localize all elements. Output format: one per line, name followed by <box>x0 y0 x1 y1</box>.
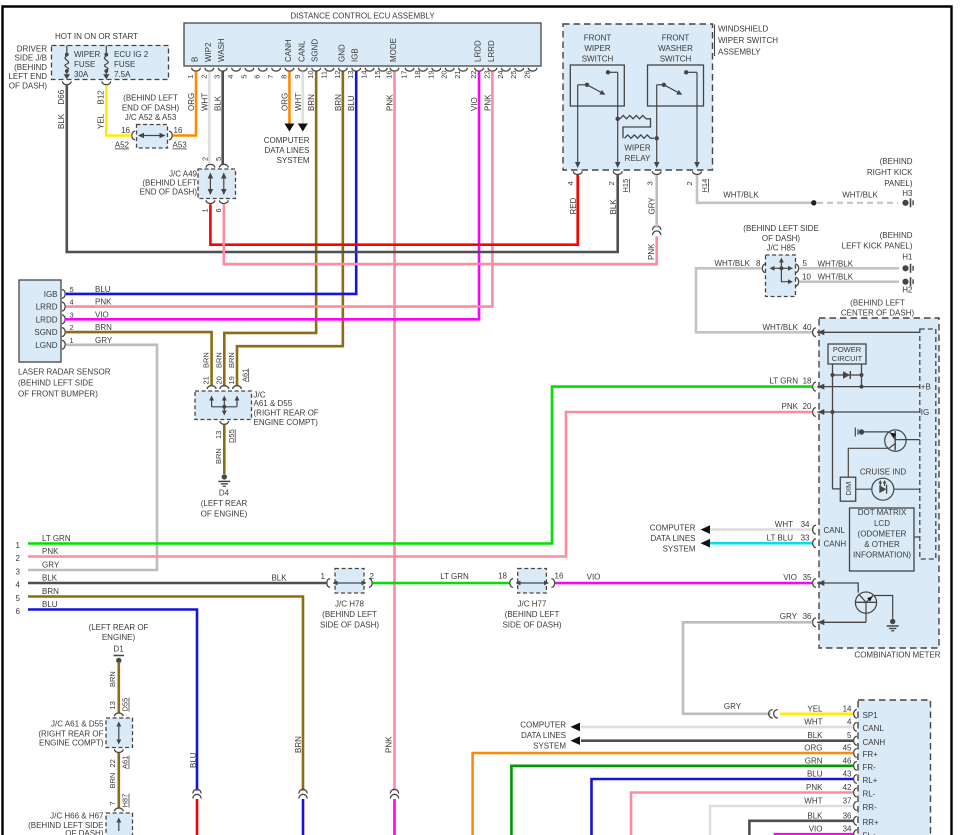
svg-text:PNK: PNK <box>386 94 395 111</box>
svg-text:WASHER: WASHER <box>658 44 693 53</box>
svg-text:SWITCH: SWITCH <box>660 55 692 64</box>
svg-text:J/C H78: J/C H78 <box>335 600 364 609</box>
svg-text:LCD: LCD <box>874 519 890 528</box>
svg-text:26: 26 <box>523 70 532 78</box>
svg-text:PNK: PNK <box>782 402 799 411</box>
svg-text:YEL: YEL <box>97 113 106 129</box>
svg-text:ENGINE): ENGINE) <box>102 633 136 642</box>
svg-text:19: 19 <box>426 70 435 78</box>
svg-text:16: 16 <box>555 572 564 581</box>
svg-text:PANEL): PANEL) <box>884 179 913 188</box>
svg-text:(BEHIND: (BEHIND <box>14 63 47 72</box>
svg-text:35: 35 <box>803 573 812 582</box>
svg-text:A52: A52 <box>115 141 130 150</box>
svg-text:BLK: BLK <box>214 95 223 111</box>
svg-text:IGB: IGB <box>44 290 58 299</box>
svg-text:GRY: GRY <box>648 197 657 215</box>
svg-text:FUSE: FUSE <box>114 60 135 69</box>
svg-text:2: 2 <box>199 75 208 79</box>
svg-text:BRN: BRN <box>307 94 316 111</box>
svg-text:(BEHIND LEFT: (BEHIND LEFT <box>322 610 377 619</box>
svg-text:18: 18 <box>498 572 507 581</box>
svg-text:GRY: GRY <box>724 702 742 711</box>
svg-text:VIO: VIO <box>470 97 479 111</box>
svg-text:LT GRN: LT GRN <box>440 572 469 581</box>
svg-text:30A: 30A <box>74 70 89 79</box>
svg-text:45: 45 <box>843 744 852 753</box>
svg-text:MODE: MODE <box>389 38 398 62</box>
svg-text:WHT/BLK: WHT/BLK <box>762 323 798 332</box>
svg-text:BRN: BRN <box>42 587 59 596</box>
svg-text:5: 5 <box>70 285 74 294</box>
svg-text:COMBINATION METER: COMBINATION METER <box>854 651 940 660</box>
svg-text:25: 25 <box>509 70 518 78</box>
svg-text:J/C H85: J/C H85 <box>767 244 796 253</box>
svg-text:H3: H3 <box>902 189 913 198</box>
svg-text:FRONT: FRONT <box>584 34 612 43</box>
svg-text:4: 4 <box>226 75 235 79</box>
svg-text:A61: A61 <box>240 369 249 382</box>
svg-text:6: 6 <box>253 75 262 79</box>
svg-text:WIPER: WIPER <box>584 44 610 53</box>
svg-text:2: 2 <box>607 181 616 185</box>
svg-text:BLU: BLU <box>95 285 111 294</box>
svg-text:5: 5 <box>239 75 248 79</box>
svg-text:(ODOMETER: (ODOMETER <box>858 530 907 539</box>
svg-text:CANH: CANH <box>284 39 293 62</box>
svg-text:FUSE: FUSE <box>74 60 95 69</box>
svg-text:& OTHER: & OTHER <box>864 540 900 549</box>
svg-text:ORG: ORG <box>280 93 289 111</box>
svg-text:ENGINE COMPT): ENGINE COMPT) <box>254 418 319 427</box>
svg-text:3: 3 <box>16 568 21 577</box>
svg-text:4: 4 <box>566 181 575 185</box>
svg-text:J/C A52 & A53: J/C A52 & A53 <box>125 113 177 122</box>
svg-text:INFORMATION): INFORMATION) <box>853 551 911 560</box>
svg-text:LEFT END: LEFT END <box>8 72 47 81</box>
svg-text:DATA LINES: DATA LINES <box>521 731 566 740</box>
svg-text:END OF DASH): END OF DASH) <box>122 104 180 113</box>
svg-text:GRY: GRY <box>95 336 113 345</box>
svg-text:18: 18 <box>803 377 812 386</box>
svg-text:(BEHIND LEFT: (BEHIND LEFT <box>142 179 197 188</box>
svg-text:WIPER: WIPER <box>74 50 100 59</box>
svg-text:VIO: VIO <box>95 310 109 319</box>
svg-text:LGND: LGND <box>35 341 57 350</box>
svg-text:+B: +B <box>921 383 931 392</box>
svg-text:WINDSHIELD: WINDSHIELD <box>718 25 768 34</box>
svg-text:SP1: SP1 <box>863 711 879 720</box>
svg-text:(RIGHT REAR OF: (RIGHT REAR OF <box>254 409 319 418</box>
svg-text:BRN: BRN <box>95 323 112 332</box>
svg-text:3: 3 <box>70 310 74 319</box>
svg-text:ORG: ORG <box>187 93 196 111</box>
svg-text:6: 6 <box>214 208 223 212</box>
svg-text:GRY: GRY <box>780 612 798 621</box>
svg-text:PNK: PNK <box>385 736 394 753</box>
svg-text:20: 20 <box>440 70 449 78</box>
svg-text:FL+: FL+ <box>863 831 877 835</box>
svg-text:BLK: BLK <box>807 731 823 740</box>
svg-text:8: 8 <box>756 259 761 268</box>
svg-text:2: 2 <box>16 554 21 563</box>
svg-text:ORG: ORG <box>804 744 822 753</box>
svg-text:A53: A53 <box>173 141 188 150</box>
svg-text:CANL: CANL <box>863 724 885 733</box>
svg-text:OF ENGINE): OF ENGINE) <box>201 510 248 519</box>
svg-text:YEL: YEL <box>807 704 823 713</box>
svg-text:FRONT: FRONT <box>662 34 690 43</box>
svg-text:D1: D1 <box>113 645 124 654</box>
svg-text:RL+: RL+ <box>863 776 878 785</box>
svg-text:LT BLU: LT BLU <box>767 534 794 543</box>
svg-text:5: 5 <box>803 259 808 268</box>
svg-text:PNK: PNK <box>647 243 656 260</box>
svg-text:OF DASH): OF DASH) <box>65 829 104 835</box>
svg-text:PNK: PNK <box>95 298 112 307</box>
svg-text:22: 22 <box>469 70 478 78</box>
svg-text:H87: H87 <box>121 794 130 808</box>
svg-text:SGND: SGND <box>34 328 57 337</box>
svg-text:20: 20 <box>214 376 223 384</box>
svg-text:RR+: RR+ <box>863 818 880 827</box>
svg-text:4: 4 <box>70 298 74 307</box>
svg-text:3: 3 <box>646 181 655 185</box>
svg-text:21: 21 <box>453 70 462 78</box>
svg-text:WIP2: WIP2 <box>204 42 213 62</box>
svg-text:B: B <box>191 57 200 62</box>
svg-text:LRRD: LRRD <box>487 40 496 62</box>
svg-text:VIO: VIO <box>809 825 823 834</box>
svg-text:BRN: BRN <box>334 94 343 111</box>
svg-text:FR-: FR- <box>863 763 877 772</box>
svg-text:SYSTEM: SYSTEM <box>277 156 310 165</box>
svg-text:ASSEMBLY: ASSEMBLY <box>718 48 761 57</box>
svg-text:WHT: WHT <box>804 717 822 726</box>
svg-text:10: 10 <box>802 273 811 282</box>
svg-text:46: 46 <box>843 756 852 765</box>
svg-text:10: 10 <box>306 70 315 78</box>
svg-text:(BEHIND LEFT: (BEHIND LEFT <box>850 299 905 308</box>
svg-text:(LEFT REAR: (LEFT REAR <box>201 499 248 508</box>
svg-text:DATA LINES: DATA LINES <box>264 146 309 155</box>
svg-text:(BEHIND LEFT: (BEHIND LEFT <box>505 610 560 619</box>
svg-text:H2: H2 <box>902 286 913 295</box>
svg-text:34: 34 <box>843 825 852 834</box>
svg-text:PNK: PNK <box>806 783 823 792</box>
svg-text:RL-: RL- <box>863 790 876 799</box>
svg-text:LT GRN: LT GRN <box>42 534 71 543</box>
svg-text:22: 22 <box>108 759 117 767</box>
svg-text:37: 37 <box>843 797 852 806</box>
svg-text:5: 5 <box>847 731 852 740</box>
svg-text:A61: A61 <box>121 756 130 769</box>
svg-text:7.5A: 7.5A <box>114 70 131 79</box>
svg-text:SYSTEM: SYSTEM <box>533 742 566 751</box>
svg-text:BLK: BLK <box>42 574 58 583</box>
svg-text:36: 36 <box>803 612 812 621</box>
svg-text:CRUISE IND: CRUISE IND <box>860 468 906 477</box>
svg-text:RELAY: RELAY <box>625 154 651 163</box>
svg-text:(BEHIND LEFT SIDE: (BEHIND LEFT SIDE <box>743 224 818 233</box>
svg-text:21: 21 <box>202 376 211 384</box>
svg-text:WHT/BLK: WHT/BLK <box>818 273 854 282</box>
svg-text:DIM: DIM <box>844 482 853 496</box>
svg-text:GND: GND <box>337 44 346 62</box>
svg-text:3: 3 <box>213 75 222 79</box>
svg-text:BRN: BRN <box>214 448 223 464</box>
svg-text:WHT/BLK: WHT/BLK <box>842 191 878 200</box>
svg-text:COMPUTER: COMPUTER <box>520 721 566 730</box>
svg-text:15: 15 <box>373 70 382 78</box>
svg-text:D55: D55 <box>227 429 236 443</box>
svg-text:J/C A49: J/C A49 <box>169 170 198 179</box>
svg-text:BRN: BRN <box>227 352 236 368</box>
svg-text:(BEHIND LEFT: (BEHIND LEFT <box>123 94 178 103</box>
svg-text:WIPER: WIPER <box>624 144 650 153</box>
svg-text:CANL: CANL <box>824 526 846 535</box>
svg-text:H14: H14 <box>700 179 709 193</box>
svg-text:LRDD: LRDD <box>474 40 483 62</box>
svg-text:4: 4 <box>847 717 852 726</box>
svg-text:12: 12 <box>333 70 342 78</box>
svg-text:34: 34 <box>801 520 810 529</box>
svg-text:D66: D66 <box>57 89 66 104</box>
svg-text:SGND: SGND <box>311 39 320 62</box>
svg-text:(RIGHT REAR OF: (RIGHT REAR OF <box>38 730 103 739</box>
svg-text:BRN: BRN <box>108 671 117 687</box>
svg-text:BRN: BRN <box>294 736 303 753</box>
svg-text:WHT: WHT <box>775 520 793 529</box>
svg-text:BLU: BLU <box>807 770 823 779</box>
svg-text:BLU: BLU <box>189 752 198 768</box>
svg-text:D55: D55 <box>121 698 130 712</box>
svg-text:17: 17 <box>400 70 409 78</box>
svg-text:(LEFT REAR OF: (LEFT REAR OF <box>89 623 149 632</box>
svg-text:BLU: BLU <box>347 95 356 111</box>
svg-text:BLK: BLK <box>57 113 66 129</box>
svg-text:END OF DASH): END OF DASH) <box>140 188 198 197</box>
svg-text:CENTER OF DASH): CENTER OF DASH) <box>841 309 915 318</box>
svg-text:DOT MATRIX: DOT MATRIX <box>858 508 907 517</box>
svg-text:13: 13 <box>346 70 355 78</box>
svg-text:36: 36 <box>843 811 852 820</box>
svg-text:HOT IN ON OR START: HOT IN ON OR START <box>55 32 138 41</box>
svg-text:DRIVER: DRIVER <box>17 44 47 53</box>
svg-text:CIRCUIT: CIRCUIT <box>832 354 863 363</box>
svg-text:1: 1 <box>16 541 21 550</box>
svg-text:COMPUTER: COMPUTER <box>264 136 310 145</box>
svg-text:BLK: BLK <box>807 811 823 820</box>
svg-text:23: 23 <box>482 70 491 78</box>
svg-text:24: 24 <box>496 70 505 78</box>
svg-text:20: 20 <box>803 402 812 411</box>
svg-text:14: 14 <box>843 704 852 713</box>
svg-text:8: 8 <box>279 75 288 79</box>
svg-text:GRN: GRN <box>805 756 823 765</box>
svg-text:J/C H77: J/C H77 <box>518 600 547 609</box>
svg-text:WHT: WHT <box>294 93 303 111</box>
svg-text:13: 13 <box>214 431 223 439</box>
svg-text:J/C H66 & H67: J/C H66 & H67 <box>50 812 104 821</box>
svg-text:(BEHIND: (BEHIND <box>880 157 913 166</box>
svg-text:LRRD: LRRD <box>36 303 58 312</box>
svg-text:SIDE OF DASH): SIDE OF DASH) <box>502 621 561 630</box>
svg-text:VIO: VIO <box>783 573 797 582</box>
svg-text:OF FRONT BUMPER): OF FRONT BUMPER) <box>18 390 98 399</box>
svg-text:SIDE OF DASH): SIDE OF DASH) <box>320 621 379 630</box>
svg-text:40: 40 <box>803 323 812 332</box>
svg-text:42: 42 <box>843 783 852 792</box>
svg-text:WHT/BLK: WHT/BLK <box>723 191 759 200</box>
svg-text:43: 43 <box>843 770 852 779</box>
svg-text:WHT/BLK: WHT/BLK <box>714 259 750 268</box>
svg-text:2: 2 <box>200 157 209 161</box>
svg-text:DISTANCE CONTROL ECU ASSEMBLY: DISTANCE CONTROL ECU ASSEMBLY <box>290 12 435 21</box>
svg-text:D4: D4 <box>219 489 230 498</box>
svg-text:CANL: CANL <box>297 40 306 62</box>
svg-text:IG: IG <box>921 408 929 417</box>
svg-text:FR+: FR+ <box>863 750 879 759</box>
svg-text:16: 16 <box>121 126 130 135</box>
svg-text:6: 6 <box>16 607 21 616</box>
svg-text:11: 11 <box>320 71 329 79</box>
svg-text:16: 16 <box>174 126 183 135</box>
svg-text:DATA LINES: DATA LINES <box>650 534 695 543</box>
svg-text:RIGHT KICK: RIGHT KICK <box>867 168 913 177</box>
svg-text:2: 2 <box>70 323 74 332</box>
svg-text:GRY: GRY <box>42 561 60 570</box>
svg-text:BLK: BLK <box>271 574 287 583</box>
svg-text:RR-: RR- <box>863 803 878 812</box>
svg-text:H1: H1 <box>902 253 913 262</box>
svg-text:5: 5 <box>16 594 21 603</box>
svg-text:LASER RADAR SENSOR: LASER RADAR SENSOR <box>18 368 111 377</box>
svg-text:ECU IG 2: ECU IG 2 <box>114 50 149 59</box>
svg-text:OF DASH): OF DASH) <box>9 82 48 91</box>
svg-text:LRDD: LRDD <box>36 315 58 324</box>
svg-text:BRN: BRN <box>108 773 117 789</box>
svg-text:J/C A61 & D55: J/C A61 & D55 <box>51 720 104 729</box>
svg-text:BLU: BLU <box>42 600 58 609</box>
svg-text:7: 7 <box>266 75 275 79</box>
svg-text:18: 18 <box>413 70 422 78</box>
svg-text:CANH: CANH <box>863 738 886 747</box>
svg-text:A61 & D55: A61 & D55 <box>254 399 293 408</box>
svg-text:16: 16 <box>385 70 394 78</box>
svg-text:WHT: WHT <box>804 797 822 806</box>
svg-text:9: 9 <box>293 75 302 79</box>
svg-text:1: 1 <box>70 336 74 345</box>
svg-text:(BEHIND LEFT SIDE: (BEHIND LEFT SIDE <box>18 379 93 388</box>
svg-text:ENGINE COMPT): ENGINE COMPT) <box>39 739 104 748</box>
svg-text:WASH: WASH <box>217 38 226 62</box>
svg-text:13: 13 <box>108 701 117 709</box>
svg-text:H15: H15 <box>621 179 630 193</box>
svg-text:BRN: BRN <box>202 352 211 368</box>
svg-text:SYSTEM: SYSTEM <box>663 545 696 554</box>
svg-text:1: 1 <box>186 75 195 79</box>
svg-text:2: 2 <box>370 572 375 581</box>
svg-text:4: 4 <box>16 581 21 590</box>
svg-text:VIO: VIO <box>587 573 601 582</box>
svg-text:WHT: WHT <box>200 93 209 111</box>
svg-text:PNK: PNK <box>42 547 59 556</box>
svg-text:19: 19 <box>227 376 236 384</box>
svg-text:1: 1 <box>200 208 209 212</box>
svg-text:COMPUTER: COMPUTER <box>650 524 696 533</box>
svg-text:LT GRN: LT GRN <box>769 377 798 386</box>
svg-text:2: 2 <box>685 181 694 185</box>
svg-text:PNK: PNK <box>483 94 492 111</box>
svg-text:LEFT KICK PANEL): LEFT KICK PANEL) <box>842 242 913 251</box>
svg-text:SIDE J/B: SIDE J/B <box>15 54 47 63</box>
svg-text:WIPER SWITCH: WIPER SWITCH <box>718 36 778 45</box>
svg-text:(BEHIND: (BEHIND <box>880 231 913 240</box>
svg-text:1: 1 <box>321 572 326 581</box>
svg-text:BRN: BRN <box>214 352 223 368</box>
svg-text:14: 14 <box>360 70 369 78</box>
svg-text:CANH: CANH <box>824 540 847 549</box>
svg-text:33: 33 <box>801 534 810 543</box>
svg-text:SWITCH: SWITCH <box>582 55 614 64</box>
svg-text:B12: B12 <box>97 90 106 105</box>
svg-text:7: 7 <box>108 801 117 805</box>
svg-text:OF DASH): OF DASH) <box>762 234 801 243</box>
svg-text:POWER: POWER <box>833 345 862 354</box>
svg-text:IGB: IGB <box>351 48 360 62</box>
